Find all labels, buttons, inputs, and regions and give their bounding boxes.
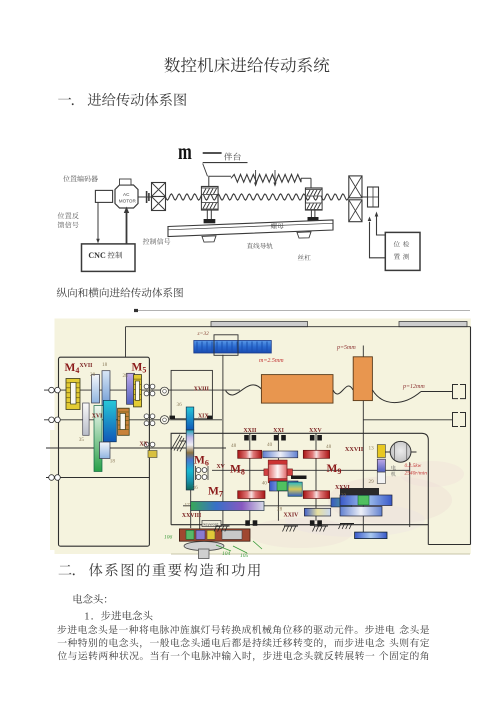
caption	[57, 288, 183, 298]
gear g9 orange hatch	[118, 408, 130, 435]
bottom dog pairs	[245, 520, 250, 526]
svg-text:18: 18	[110, 459, 116, 465]
M6 rollers	[196, 468, 201, 473]
svg-text:XVII: XVII	[80, 363, 94, 369]
shaft I	[44, 389, 240, 391]
support ticks with arrows	[256, 170, 275, 184]
legend label bantai	[224, 153, 240, 161]
M6 striped gear column	[186, 430, 194, 490]
small rainbow gear	[288, 482, 302, 496]
stack purple	[377, 459, 385, 472]
motor body	[115, 185, 138, 208]
bottom blue gear bar	[355, 532, 387, 539]
coupling curve 3	[372, 390, 421, 403]
feedback arrow line	[97, 203, 99, 240]
frame top line	[126, 326, 471, 328]
gear bar 1 middle blue	[263, 451, 298, 458]
svg-text:105: 105	[240, 553, 249, 559]
label: linear rail	[247, 243, 273, 249]
ground hatch 1	[216, 525, 230, 527]
gear g3	[102, 371, 110, 406]
svg-text:36: 36	[177, 402, 183, 408]
roller circles shaft I	[144, 384, 149, 389]
coupling curve 2	[333, 386, 353, 394]
ground hatch 3	[314, 525, 328, 527]
bottom assembly bar	[179, 529, 250, 541]
svg-text:106: 106	[164, 535, 173, 541]
frame vline left	[125, 327, 127, 358]
M9 black hatch bar	[340, 488, 379, 495]
svg-text:MOTOR: MOTOR	[119, 199, 137, 204]
gear bar 1 left red	[238, 450, 262, 458]
gear g6b white	[83, 403, 89, 435]
vertical shaft e	[191, 425, 200, 529]
svg-text:m=2.5mm: m=2.5mm	[259, 358, 284, 364]
svg-text:0.2.5kw: 0.2.5kw	[405, 463, 422, 469]
svg-text:XIX: XIX	[198, 413, 209, 419]
vertical shaft a	[222, 355, 224, 525]
rail feet	[202, 236, 216, 242]
svg-text:CNC: CNC	[88, 251, 106, 260]
ground hatch 2	[284, 525, 298, 527]
svg-text:XXVI: XXVI	[335, 485, 351, 491]
XVIII box corner dogs	[170, 416, 176, 419]
svg-text:28: 28	[123, 373, 129, 379]
gearbox diagram background	[55, 319, 471, 555]
rack outline box	[214, 335, 238, 356]
coupling curve 1	[226, 385, 262, 395]
svg-text:p=12mm: p=12mm	[402, 384, 425, 390]
nut 1 stem and foot	[207, 210, 211, 219]
blue rack gear	[194, 341, 271, 354]
top thin line	[135, 309, 470, 311]
svg-text:XXVIII: XXVIII	[182, 513, 202, 519]
control line to motor	[126, 212, 128, 244]
M9 bar with green center	[340, 495, 392, 506]
paragraph line 1	[57, 625, 394, 634]
svg-text:XV: XV	[217, 464, 226, 470]
svg-text:23: 23	[341, 493, 347, 499]
black cap	[291, 476, 307, 480]
bearing brackets pair 1	[452, 385, 466, 399]
svg-text:40: 40	[267, 442, 273, 448]
blue bar w green center	[270, 481, 299, 491]
svg-text:XXIV: XXIV	[284, 513, 300, 519]
top gray bar 2	[399, 322, 467, 327]
gear bar 1 right red	[303, 450, 329, 458]
gear 18	[100, 442, 111, 459]
right chamber bottom	[428, 544, 470, 546]
svg-text:28: 28	[90, 372, 96, 378]
svg-text:13: 13	[369, 446, 375, 452]
vertical shafts b,c,d	[250, 433, 316, 521]
stack yellow	[377, 445, 385, 458]
connection detector to screw end	[377, 216, 386, 235]
svg-text:1: 1	[84, 612, 89, 623]
blue-green bar right	[331, 498, 352, 507]
gear g7 white-green tall	[94, 406, 102, 472]
CNC controller box	[82, 244, 136, 272]
connection bearing to detector	[370, 222, 386, 258]
svg-text:35: 35	[79, 437, 85, 443]
encoder box	[95, 190, 112, 202]
svg-text:40: 40	[262, 481, 268, 487]
motor	[385, 451, 417, 453]
motor shaft	[138, 196, 152, 198]
ballscrew (wavy line)	[166, 194, 349, 200]
ballscrew nut 1	[202, 187, 219, 211]
svg-text:28: 28	[277, 507, 283, 513]
linear guide rail	[168, 220, 333, 237]
legend pointer	[203, 164, 208, 177]
M6 support hatch	[171, 435, 186, 452]
vertical orange block	[362, 346, 364, 357]
nut 2 stem and foot	[311, 210, 315, 217]
gear bar 3 red right	[303, 491, 329, 499]
gear M4 yellow	[66, 379, 80, 410]
body line: dian nian tou	[74, 594, 107, 604]
lower axis	[183, 505, 352, 507]
gear bar 3 red left	[238, 491, 265, 499]
bottom ellipse foot	[184, 542, 224, 551]
label: position encoder	[63, 175, 98, 182]
svg-text:XVI: XVI	[92, 413, 103, 419]
svg-text:36: 36	[193, 485, 199, 491]
label: position feedback signal	[58, 212, 79, 218]
feed drive sketch diagram	[58, 139, 420, 271]
shaft III	[46, 447, 226, 449]
gear g8 teal	[103, 400, 116, 441]
top dog pairs	[244, 435, 249, 441]
cream bottom edge	[171, 553, 470, 555]
svg-text:XX: XX	[140, 442, 149, 448]
stack white	[377, 472, 385, 483]
center spool	[264, 469, 268, 476]
XVIII box	[171, 370, 212, 418]
rainbow bar	[191, 502, 264, 511]
svg-text:XXII: XXII	[244, 428, 258, 434]
ballscrew nut 2	[306, 188, 323, 210]
svg-text:18: 18	[102, 362, 108, 368]
motor top sensor	[120, 179, 132, 185]
detector box	[385, 232, 420, 270]
svg-text:104: 104	[222, 550, 231, 557]
right bearing X-blocks	[349, 176, 362, 198]
heading 2	[59, 565, 72, 574]
svg-text:XXI: XXI	[273, 428, 284, 434]
keyword tag	[202, 521, 221, 527]
svg-text:48: 48	[231, 443, 237, 449]
right narrow box	[362, 196, 368, 198]
svg-text:29: 29	[369, 479, 375, 485]
title: CNC machine feed drive system	[164, 57, 329, 72]
svg-text:z=32: z=32	[197, 331, 210, 337]
M9 lower bar	[340, 507, 382, 517]
coupling bearing X-blocks	[152, 183, 166, 197]
svg-text:48: 48	[326, 444, 332, 450]
label: nut	[271, 223, 284, 229]
svg-text:p=5mm: p=5mm	[336, 345, 356, 351]
shaft bearing circles left of box	[160, 387, 168, 395]
spring linkage above nut	[209, 176, 231, 186]
svg-text:XVIII: XVIII	[194, 387, 210, 393]
svg-text:XXVII: XXVII	[345, 446, 364, 453]
svg-text:2940r/min: 2940r/min	[405, 471, 428, 477]
blue-yellow bar low	[304, 508, 330, 516]
big orange block	[261, 375, 333, 404]
left margin bearing circles	[49, 387, 55, 393]
legend underline	[203, 162, 248, 164]
svg-text:XXV: XXV	[309, 428, 322, 434]
bearing brackets pair 2	[452, 413, 466, 427]
gear g2	[92, 375, 100, 403]
gear transmission diagram	[44, 309, 471, 559]
label: control signal	[143, 238, 171, 244]
shaft II	[44, 419, 222, 421]
shaft IV bearing circles	[49, 475, 55, 481]
roller circles shaft III	[144, 442, 149, 447]
right border	[470, 327, 472, 545]
heading 1	[58, 98, 71, 100]
gear g4 purple	[127, 373, 135, 404]
legend line	[203, 152, 222, 154]
svg-text:17: 17	[185, 503, 191, 509]
middle axis	[212, 469, 410, 471]
svg-text:m: m	[178, 139, 192, 164]
paragraph line 3	[58, 651, 375, 661]
middle box frame	[171, 433, 428, 544]
green callouts	[216, 541, 262, 553]
top gray bar 1	[211, 322, 308, 327]
ground hatch 4	[340, 523, 354, 525]
paragraph line 2	[58, 638, 385, 648]
label: screw	[298, 254, 311, 260]
gear M5 yellow	[134, 375, 142, 407]
left gear box frame	[59, 357, 150, 546]
small yellow block shaft III	[148, 451, 157, 458]
watermark	[328, 476, 452, 524]
svg-text:AC: AC	[123, 192, 130, 197]
gear 36 teal	[186, 407, 194, 430]
roller circles shaft II	[144, 414, 149, 419]
